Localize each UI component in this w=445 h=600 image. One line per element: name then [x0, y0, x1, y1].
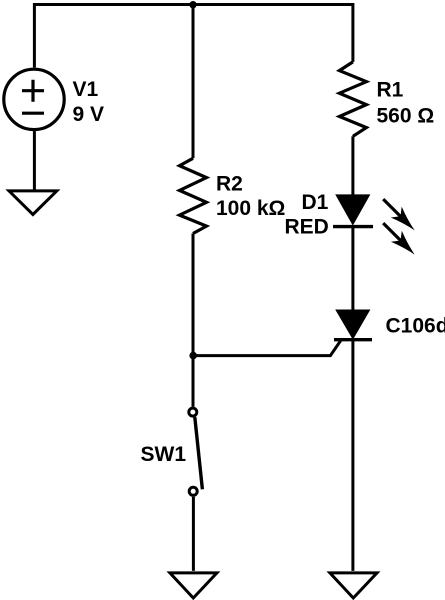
svg-text:C106d: C106d — [386, 314, 445, 337]
svg-text:9 V: 9 V — [73, 103, 105, 126]
switch SW1 top contact — [189, 408, 197, 416]
resistor R1 — [339, 62, 366, 136]
svg-text:100 kΩ: 100 kΩ — [216, 197, 285, 220]
resistor R2 — [180, 158, 207, 233]
V1 minus sign — [22, 112, 44, 115]
ground below SW1 — [170, 573, 217, 598]
thyristor C106d triangle — [335, 310, 370, 340]
switch SW1 blade — [195, 417, 203, 489]
LED D1 emission arrow 1 head — [391, 207, 415, 231]
LED D1 emission arrow 1 shaft — [383, 199, 402, 218]
wire from node down to R2 — [192, 5, 195, 159]
svg-text:D1: D1 — [302, 191, 329, 214]
LED D1 emission arrow 2 shaft — [383, 223, 402, 242]
ground below V1 — [9, 191, 57, 215]
thyristor C106d cathode bar — [334, 338, 372, 341]
LED D1 emission arrow 2 head — [391, 231, 415, 255]
svg-text:V1: V1 — [73, 78, 99, 101]
LED D1 cathode bar — [333, 225, 373, 228]
svg-text:R1: R1 — [377, 78, 404, 101]
svg-text:R2: R2 — [216, 173, 243, 196]
svg-text:560 Ω: 560 Ω — [377, 105, 435, 128]
wire gate node to SCR gate — [193, 340, 341, 356]
switch SW1 bottom contact — [189, 487, 197, 495]
wire R2 to gate node — [192, 234, 195, 356]
wire from V1 plus terminal up and along top bus to node — [34, 5, 193, 68]
wire LED to SCR — [351, 227, 354, 310]
svg-text:SW1: SW1 — [141, 443, 187, 466]
ground below SCR — [330, 573, 377, 598]
V1 plus sign — [22, 80, 44, 102]
svg-text:RED: RED — [285, 216, 329, 239]
wire gate node down to switch — [192, 355, 195, 407]
wire from node along top bus to R1 — [193, 5, 353, 62]
node top junction — [189, 1, 196, 8]
wire V1 to ground — [33, 131, 36, 190]
LED D1 triangle — [335, 194, 370, 225]
voltage source V1 circle — [4, 69, 64, 129]
wire switch to ground — [192, 497, 195, 571]
wire SCR to ground — [351, 340, 354, 571]
wire R1 to LED D1 — [351, 136, 354, 196]
node gate junction — [189, 352, 197, 360]
